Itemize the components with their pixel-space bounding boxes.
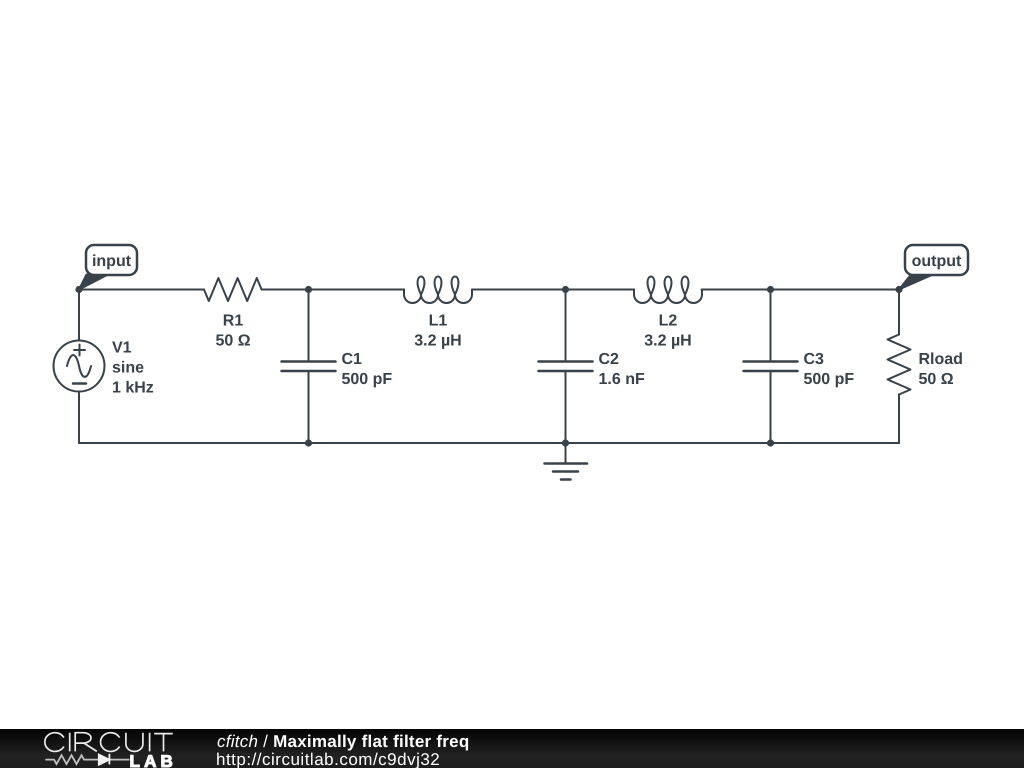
svg-text:Rload: Rload [919, 351, 963, 368]
svg-text:1 kHz: 1 kHz [112, 380, 154, 397]
svg-text:input: input [92, 253, 132, 270]
svg-text:R1: R1 [223, 313, 244, 330]
svg-text:C1: C1 [342, 351, 363, 368]
svg-text:V1: V1 [112, 340, 132, 357]
svg-text:LAB: LAB [130, 752, 178, 768]
svg-text:3.2 µH: 3.2 µH [414, 333, 461, 350]
svg-text:50 Ω: 50 Ω [919, 371, 954, 388]
svg-text:C3: C3 [804, 351, 825, 368]
svg-text:output: output [912, 253, 962, 270]
svg-text:500 pF: 500 pF [342, 371, 393, 388]
svg-text:L1: L1 [429, 313, 448, 330]
svg-text:50 Ω: 50 Ω [215, 333, 250, 350]
svg-text:500 pF: 500 pF [804, 371, 855, 388]
svg-text:C2: C2 [599, 351, 620, 368]
svg-text:1.6 nF: 1.6 nF [599, 371, 645, 388]
svg-text:L2: L2 [659, 313, 678, 330]
svg-text:3.2 µH: 3.2 µH [644, 333, 691, 350]
svg-text:sine: sine [112, 360, 144, 377]
